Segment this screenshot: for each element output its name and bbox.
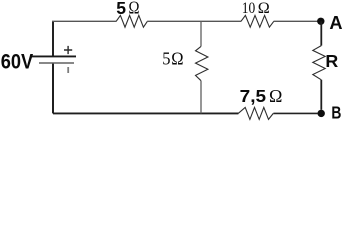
svg-text:B: B bbox=[331, 102, 341, 122]
svg-text:Ω: Ω bbox=[258, 0, 270, 17]
svg-text:60V: 60V bbox=[1, 51, 33, 74]
svg-text:5: 5 bbox=[162, 48, 170, 68]
wire right vertical upper bbox=[320, 21, 322, 45]
battery positive plate bbox=[32, 55, 77, 57]
svg-text:Ω: Ω bbox=[269, 86, 282, 106]
wire top left run bbox=[52, 20, 116, 22]
node A junction dot bbox=[317, 18, 324, 25]
battery negative plate (gray) bbox=[39, 62, 74, 64]
svg-text:R: R bbox=[325, 51, 338, 71]
wire middle branch upper bbox=[200, 21, 202, 46]
node B junction dot bbox=[318, 110, 325, 117]
svg-text:10: 10 bbox=[242, 0, 256, 17]
svg-text:5: 5 bbox=[116, 0, 126, 18]
resistor 5 ohm top zigzag bbox=[116, 15, 147, 27]
wire top-left corner segment bbox=[52, 22, 54, 56]
wire top middle run bbox=[147, 20, 241, 22]
svg-text:7,5: 7,5 bbox=[240, 86, 267, 106]
wire middle branch lower bbox=[200, 81, 202, 114]
resistor R zigzag bbox=[313, 46, 325, 80]
svg-text:Ω: Ω bbox=[129, 0, 140, 18]
wire top right run to node A bbox=[274, 20, 318, 22]
wire bottom left run bbox=[53, 112, 238, 114]
resistor 5 ohm middle zigzag bbox=[196, 46, 208, 80]
svg-text:A: A bbox=[329, 13, 342, 33]
wire left vertical lower (battery minus to bottom) bbox=[52, 63, 54, 113]
wire bottom right run from node B bbox=[273, 112, 318, 114]
resistor 7.5 ohm zigzag bbox=[238, 107, 273, 119]
svg-text:Ω: Ω bbox=[171, 48, 183, 68]
battery minus tick (gray) bbox=[67, 67, 69, 73]
resistor 10 ohm zigzag bbox=[241, 15, 274, 27]
battery plus sign bbox=[64, 46, 72, 54]
wire right vertical lower bbox=[320, 80, 322, 110]
